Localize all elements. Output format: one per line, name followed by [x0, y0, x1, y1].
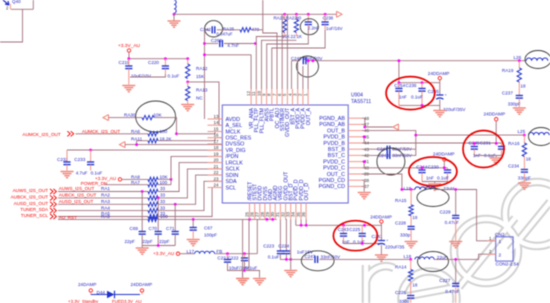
svg-text:CON2-2.54: CON2-2.54 — [496, 262, 520, 267]
junction — [409, 258, 412, 261]
wire — [205, 29, 210, 31]
junction — [523, 134, 526, 137]
annotation circle around RA30 — [136, 101, 176, 132]
junction — [203, 42, 206, 45]
svg-text:15K: 15K — [196, 74, 205, 79]
svg-text:C224: C224 — [278, 244, 289, 249]
annotation ellipse around L19 — [417, 189, 449, 207]
junction — [443, 166, 446, 169]
resistor RA25 470 — [240, 28, 251, 32]
junction — [141, 190, 144, 193]
wire — [130, 74, 165, 77]
svg-text:C233: C233 — [74, 157, 85, 162]
svg-text:AUWS_I2S_OUT: AUWS_I2S_OUT — [59, 186, 95, 191]
wire — [180, 253, 195, 255]
svg-text:C225: C225 — [349, 227, 360, 232]
svg-text:C71: C71 — [166, 226, 175, 231]
svg-text:1nF: 1nF — [399, 95, 407, 100]
transistor Q40 (partial) — [3, 0, 9, 5]
wire OUT_A rail — [292, 60, 301, 62]
wire — [290, 259, 292, 269]
wire — [256, 219, 258, 253]
svg-text:0.47uF: 0.47uF — [445, 220, 459, 225]
junction — [473, 142, 476, 145]
svg-text:24: 24 — [213, 183, 219, 188]
junction — [243, 269, 246, 272]
svg-text:C262: C262 — [211, 38, 222, 43]
junction — [363, 160, 366, 163]
wire — [474, 155, 501, 157]
svg-text:U904: U904 — [351, 93, 363, 99]
svg-text:PVDD_B: PVDD_B — [323, 141, 345, 147]
capacitor C238 1uF/16V — [324, 14, 326, 22]
svg-text:SCL: SCL — [226, 185, 237, 191]
svg-text:17: 17 — [213, 139, 219, 144]
junction — [175, 132, 178, 135]
wire from top edge — [262, 0, 264, 30]
capacitor C239 2.2nF — [307, 14, 309, 22]
svg-text:PVDD_B: PVDD_B — [323, 135, 345, 141]
wire — [398, 61, 400, 83]
ground — [405, 242, 418, 248]
svg-text:L25: L25 — [518, 129, 526, 134]
svg-text:BST_B: BST_B — [328, 147, 345, 153]
resistor RA23 16K — [284, 14, 286, 19]
wire — [158, 188, 222, 217]
svg-text:C226: C226 — [395, 290, 406, 295]
resistor RA6 100 — [148, 132, 158, 136]
wire — [58, 203, 148, 205]
wire PVDD_B rail to C245/C231 — [362, 142, 502, 144]
junction — [186, 57, 189, 60]
wire — [58, 197, 148, 199]
wire — [228, 262, 243, 270]
junction — [401, 188, 404, 191]
svg-text:0.1uF: 0.1uF — [411, 95, 423, 100]
inductor L24 (partial, vertical) — [174, 0, 176, 13]
svg-text:37: 37 — [364, 184, 370, 189]
junction — [421, 81, 424, 84]
annotation circle around C247 C248 — [377, 148, 405, 175]
svg-text:AVDD: AVDD — [226, 117, 241, 123]
svg-text:10K: 10K — [160, 175, 169, 180]
svg-text:220uF/35V: 220uF/35V — [443, 107, 466, 112]
wire C223 C224 to pins — [279, 219, 281, 251]
resistor RA22 22.1K — [295, 14, 297, 19]
svg-text:AUMCK_I2S_OUT: AUMCK_I2S_OUT — [82, 129, 120, 134]
svg-text:RA16: RA16 — [508, 141, 520, 146]
svg-text:18: 18 — [520, 84, 526, 89]
junction — [173, 13, 176, 16]
capacitor C262 — [205, 43, 219, 45]
svg-text:RA19: RA19 — [502, 68, 514, 73]
svg-text:AUBCK_I2S_OUT: AUBCK_I2S_OUT — [11, 195, 49, 200]
ground — [284, 271, 297, 277]
wire — [58, 210, 148, 212]
wire — [215, 253, 258, 255]
junction — [289, 258, 292, 261]
annotation circle around L25 — [529, 128, 550, 146]
wire — [291, 61, 293, 89]
wire — [157, 198, 159, 231]
svg-text:FUED3.3V_AU: FUED3.3V_AU — [112, 299, 142, 303]
svg-text:PVDD_C: PVDD_C — [323, 166, 345, 172]
resistor RA13 NC — [187, 82, 189, 87]
U904 right pins 48-37 — [319, 116, 370, 190]
junction — [398, 81, 401, 84]
svg-text:C220: C220 — [148, 60, 159, 65]
svg-text:22pF: 22pF — [142, 239, 153, 244]
wire bus below IC — [242, 219, 244, 277]
svg-text:18: 18 — [213, 145, 219, 150]
ground — [375, 255, 388, 261]
svg-text:C67: C67 — [204, 225, 213, 230]
wire — [141, 234, 143, 245]
junction — [421, 104, 424, 107]
svg-text:C236: C236 — [406, 83, 417, 88]
svg-text:40: 40 — [296, 16, 301, 21]
wire — [399, 104, 440, 106]
resistor RA12 15K — [187, 59, 189, 64]
junction — [421, 166, 424, 169]
svg-text:C228: C228 — [395, 220, 406, 225]
svg-text:16: 16 — [213, 133, 219, 138]
wire — [286, 14, 288, 89]
ground — [253, 279, 266, 285]
wire — [307, 61, 309, 89]
ground — [513, 108, 526, 114]
wire — [392, 135, 416, 149]
svg-text:19: 19 — [213, 151, 219, 156]
svg-text:22uH: 22uH — [443, 186, 454, 191]
ground — [236, 279, 249, 285]
wire pin25 bus — [58, 218, 148, 220]
svg-text:RA30: RA30 — [124, 113, 136, 118]
wire — [392, 149, 416, 155]
annotation circle around C249 — [297, 56, 319, 77]
wire — [365, 126, 393, 128]
svg-text:33nF/50V: 33nF/50V — [321, 255, 341, 260]
junction — [307, 59, 310, 62]
svg-text:C237: C237 — [502, 91, 513, 96]
wire — [174, 204, 176, 231]
junction — [271, 218, 274, 221]
svg-text:100: 100 — [160, 129, 168, 134]
junction — [192, 218, 195, 221]
junction — [454, 188, 457, 191]
wire to pin 19 /PDN — [171, 156, 222, 184]
wire — [256, 37, 284, 90]
svg-text:21: 21 — [213, 164, 219, 169]
junction — [226, 252, 229, 255]
svg-text:RA3: RA3 — [101, 199, 110, 204]
svg-text:LRCLK: LRCLK — [226, 160, 244, 166]
wire — [399, 82, 440, 84]
svg-text:+3.3V_Standby: +3.3V_Standby — [68, 299, 99, 303]
svg-text:TAS5711: TAS5711 — [351, 99, 371, 105]
junction — [398, 59, 401, 62]
capacitor C249 33nF/50V inline — [303, 57, 306, 64]
wire — [115, 294, 141, 296]
svg-text:1nF: 1nF — [426, 175, 434, 180]
annotation ellipse around C247 — [301, 251, 334, 271]
op-amp U904 TAS5711 body — [222, 105, 348, 203]
wire — [248, 219, 250, 270]
svg-text:OUT_B: OUT_B — [327, 128, 345, 134]
junction — [186, 81, 189, 84]
svg-text:AUBCK_I2S_OUT: AUBCK_I2S_OUT — [59, 193, 97, 198]
junction — [363, 135, 366, 138]
wire OUT_B to L25 — [362, 131, 524, 136]
watermark — [366, 182, 550, 303]
junction — [361, 242, 364, 245]
wire — [158, 181, 222, 210]
resistor RA3 33 — [148, 202, 158, 206]
junction — [174, 203, 177, 206]
wire PVDD_C pins tied — [362, 162, 364, 168]
svg-text:18: 18 — [412, 215, 418, 220]
svg-text:36: 36 — [301, 211, 306, 217]
junction — [89, 149, 92, 152]
svg-text:RA6: RA6 — [131, 129, 140, 134]
svg-text:C254: C254 — [394, 83, 405, 88]
junction — [495, 142, 498, 145]
junction — [324, 13, 327, 16]
svg-text:4.7nF: 4.7nF — [227, 43, 239, 48]
wire — [158, 175, 222, 204]
resistor RA8 10K — [148, 177, 158, 181]
svg-text:14: 14 — [213, 120, 219, 125]
U904 left pins 13-24 — [208, 114, 252, 191]
svg-text:OUT_D: OUT_D — [304, 183, 310, 201]
svg-text:24DDAMP: 24DDAMP — [370, 215, 392, 220]
junction — [254, 42, 257, 45]
resistor RA1 33 — [148, 189, 158, 193]
svg-text:SCLK: SCLK — [226, 167, 240, 173]
svg-text:AUSD_I2S_OUT: AUSD_I2S_OUT — [14, 201, 49, 206]
svg-text:C230: C230 — [428, 165, 439, 170]
svg-text:C247: C247 — [305, 254, 316, 259]
svg-text:RA15: RA15 — [395, 198, 407, 203]
wire — [154, 118, 177, 134]
junction — [164, 57, 167, 60]
svg-text:SDIN: SDIN — [226, 173, 239, 179]
svg-text:18: 18 — [412, 282, 418, 287]
U904 bottom pins 25-36 — [244, 171, 310, 220]
svg-text:0.47uF: 0.47uF — [445, 289, 459, 294]
wire — [344, 243, 382, 245]
svg-text:23: 23 — [213, 176, 219, 181]
svg-text:100: 100 — [160, 214, 168, 219]
svg-text:PGND_CD: PGND_CD — [319, 178, 345, 184]
svg-text:0.1uF: 0.1uF — [268, 254, 280, 259]
wire — [245, 271, 260, 278]
junction — [285, 258, 288, 261]
junction — [283, 13, 286, 16]
svg-text:1: 1 — [499, 239, 502, 245]
wire 24DDAMP rail PVDD_D — [295, 219, 297, 225]
wire PGND_CD tied to ground — [362, 180, 364, 186]
wire BST_D to C247 — [291, 219, 313, 259]
svg-text:RA1: RA1 — [101, 186, 110, 191]
resistor RA7 100 — [148, 183, 158, 187]
svg-text:10K: 10K — [154, 113, 163, 118]
svg-text:1uF/16V: 1uF/16V — [326, 26, 343, 31]
wire — [158, 178, 171, 180]
ground — [173, 14, 175, 20]
annotation circle around L26 — [525, 51, 550, 69]
svg-text:C242: C242 — [200, 27, 211, 32]
svg-text:AUSD_I2S_OUT: AUSD_I2S_OUT — [59, 199, 94, 204]
wire PGND_AB to arrow — [362, 118, 365, 127]
svg-text:OUT_A: OUT_A — [306, 107, 312, 125]
wire PVDD_C rail to C244/C230 — [362, 167, 448, 169]
capacitor C242 — [212, 26, 215, 33]
wire BST_B to C247 — [362, 148, 385, 150]
svg-text:15: 15 — [213, 127, 219, 132]
ground — [187, 240, 200, 246]
junction — [127, 57, 130, 60]
wire — [91, 294, 107, 296]
power arrow — [337, 11, 343, 17]
svg-text:22: 22 — [213, 170, 219, 175]
resistor RA2 33 — [148, 196, 158, 200]
svg-text:PGND_AB: PGND_AB — [319, 116, 345, 122]
svg-text:33: 33 — [160, 205, 166, 210]
svg-text:FB: FB — [216, 249, 222, 254]
junction — [135, 143, 138, 146]
wire — [297, 61, 299, 89]
svg-text:RA2: RA2 — [101, 193, 110, 198]
svg-text:10uF/10V: 10uF/10V — [131, 74, 152, 79]
ground — [141, 246, 143, 248]
svg-text:OSC_RES: OSC_RES — [226, 136, 252, 142]
junction — [157, 197, 160, 200]
svg-text:RA9: RA9 — [101, 214, 110, 219]
annotation circle around C242 — [205, 21, 223, 37]
svg-text:RA7: RA7 — [131, 180, 140, 185]
wire — [434, 254, 496, 259]
svg-text:33: 33 — [160, 199, 166, 204]
wire — [272, 30, 325, 89]
wire — [0, 9, 23, 42]
svg-text:C249 33nF/50V: C249 33nF/50V — [291, 56, 323, 61]
svg-text:RA4: RA4 — [101, 205, 110, 210]
wire — [204, 30, 206, 119]
junction — [363, 224, 366, 227]
annotation circle around C239 — [300, 19, 318, 35]
svg-text:L26: L26 — [514, 55, 522, 60]
svg-text:22pF: 22pF — [159, 239, 170, 244]
svg-text:330p: 330p — [399, 299, 410, 303]
junction — [266, 218, 269, 221]
offpage arrow — [120, 142, 126, 148]
svg-text:C70: C70 — [149, 226, 158, 231]
svg-text:RA23: RA23 — [274, 16, 286, 21]
wire to pin 16 OSC_RES — [158, 138, 222, 141]
annotation ellipse around L18 — [418, 252, 449, 272]
annotation ellipse C243 C225 — [333, 221, 377, 251]
svg-text:24DDAMP: 24DDAMP — [428, 71, 450, 76]
junction — [414, 134, 417, 137]
wire to pin 18 VR_DIG — [67, 149, 222, 151]
wire — [250, 55, 252, 89]
wire — [158, 163, 222, 192]
svg-text:D44: D44 — [97, 290, 106, 295]
svg-text:PGND_CD: PGND_CD — [319, 184, 345, 190]
svg-text:4.7uF: 4.7uF — [76, 170, 88, 175]
wire OUT_C to L19 — [362, 174, 415, 190]
svg-text:RA12: RA12 — [196, 66, 208, 71]
annotation ellipse C254 C236 — [386, 77, 435, 110]
svg-text:0.1uF: 0.1uF — [168, 74, 180, 79]
svg-text:MCLK: MCLK — [226, 129, 241, 135]
svg-text:+3.3V_AU: +3.3V_AU — [153, 251, 174, 256]
svg-text:AUWS_I2S_OUT: AUWS_I2S_OUT — [13, 188, 49, 193]
svg-text:100pF: 100pF — [204, 233, 217, 238]
junction — [248, 218, 251, 221]
svg-text:220uF/35: 220uF/35 — [385, 244, 405, 249]
svg-text:2: 2 — [499, 252, 502, 258]
U904 top pins 12-1 — [246, 89, 312, 137]
junction — [454, 258, 457, 261]
svg-text:0.1uF: 0.1uF — [91, 171, 103, 176]
wire — [158, 218, 277, 220]
wire — [104, 184, 148, 186]
svg-text:POWER_DN: POWER_DN — [81, 181, 108, 186]
svg-text:Q40: Q40 — [12, 0, 21, 4]
svg-text:C222: C222 — [228, 255, 239, 260]
svg-text:SDA: SDA — [226, 179, 237, 185]
wire — [262, 40, 297, 89]
wire PVDD_B pins tied — [362, 137, 364, 143]
svg-text:24DAMP: 24DAMP — [78, 282, 96, 287]
wire +3.3V rail to PLL parts — [174, 13, 336, 15]
wire — [263, 30, 277, 89]
svg-text:BST_C: BST_C — [328, 153, 345, 159]
junction — [295, 13, 298, 16]
svg-text:C219: C219 — [119, 60, 130, 65]
wire — [242, 271, 244, 278]
svg-text:18: 18 — [526, 157, 532, 162]
wire — [281, 14, 283, 89]
junction — [170, 178, 173, 181]
junction — [410, 188, 413, 191]
svg-text:33: 33 — [160, 193, 166, 198]
ground — [433, 111, 446, 117]
ground — [434, 182, 436, 184]
ground — [236, 279, 249, 285]
wire — [422, 181, 448, 183]
wire — [267, 30, 309, 89]
svg-text:+3.3V_AU: +3.3V_AU — [118, 43, 141, 49]
svg-text:22.1K: 22.1K — [291, 34, 303, 39]
svg-text:24DDAMP: 24DDAMP — [433, 152, 455, 157]
wire — [319, 258, 410, 260]
svg-text:24DDAMP: 24DDAMP — [484, 112, 506, 117]
junction — [307, 13, 310, 16]
ground — [449, 242, 462, 248]
svg-text:PGND_AB: PGND_AB — [319, 122, 345, 128]
wire — [129, 58, 188, 60]
ground — [358, 193, 371, 199]
wire — [137, 141, 148, 145]
svg-text:C223: C223 — [263, 244, 274, 249]
capacitor C67 100pF — [192, 219, 194, 227]
ground — [122, 86, 135, 92]
junction — [203, 53, 206, 56]
svg-text:A_SEL: A_SEL — [226, 123, 243, 129]
